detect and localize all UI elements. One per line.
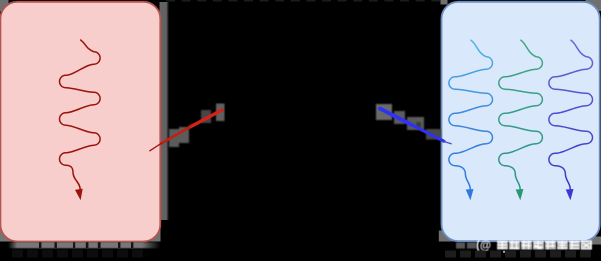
blurred label glyphs on blue connector bbox=[376, 104, 441, 140]
red connector line to pink box bbox=[150, 110, 222, 151]
red wavy thread arrow in pink box bbox=[60, 40, 101, 201]
watermark small white dot row bbox=[479, 251, 528, 253]
indigo wavy thread arrow 3 in blue box bbox=[549, 40, 593, 200]
gray caption band below pink box bbox=[8, 242, 160, 248]
teal wavy thread arrow 2 in blue box bbox=[499, 40, 543, 200]
glow wedge bottom-right of blue box bbox=[591, 237, 601, 245]
blurred label glyphs on red connector bbox=[169, 104, 225, 148]
blue box (right process container) bbox=[442, 2, 600, 241]
svg-text:(@: (@ bbox=[476, 240, 491, 252]
glow wedge bottom-right of pink box bbox=[145, 228, 161, 242]
cropped text feet along top edge bbox=[166, 0, 440, 2]
faint second watermark row bbox=[445, 251, 591, 258]
glow wedge top-right of blue box bbox=[586, 0, 601, 11]
pink box (left process container) bbox=[0, 2, 160, 242]
glow wedge bottom-left of blue box bbox=[439, 231, 453, 242]
blue wavy thread arrow 1 in blue box bbox=[449, 40, 493, 200]
caption band glyph gaps bbox=[39, 242, 133, 248]
watermark leading dark glyphs bbox=[456, 243, 476, 249]
glow strip right of pink box bbox=[160, 2, 170, 220]
glow wedge top-left of blue box bbox=[441, 0, 448, 5]
watermark CJK glyph blocks bbox=[497, 241, 592, 250]
glow wedge bottom-left of pink box bbox=[0, 226, 15, 242]
faint dark caption row below band bbox=[12, 250, 143, 258]
glow wedge top-left of pink box bbox=[0, 0, 9, 12]
blue connector line to blue box bbox=[380, 109, 451, 144]
